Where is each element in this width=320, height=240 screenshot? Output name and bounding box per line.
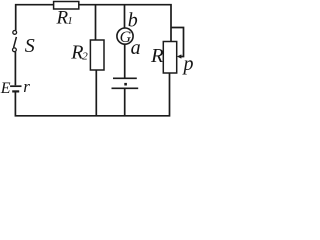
svg-text:R: R — [150, 45, 164, 67]
svg-text:r: r — [23, 77, 30, 96]
svg-text:S: S — [25, 35, 35, 57]
svg-text:E: E — [0, 80, 11, 97]
svg-text:p: p — [182, 53, 194, 75]
svg-text:b: b — [128, 9, 138, 31]
svg-text:2: 2 — [82, 50, 88, 62]
svg-text:1: 1 — [67, 15, 73, 27]
svg-text:a: a — [131, 37, 141, 59]
